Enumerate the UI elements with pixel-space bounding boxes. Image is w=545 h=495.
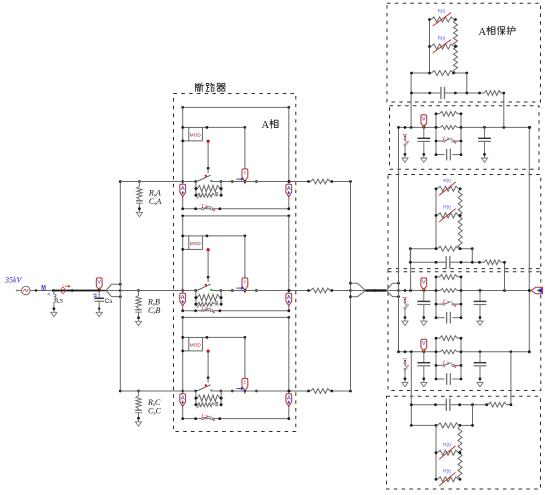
svg-text:CsC: CsC <box>148 407 161 417</box>
svg-text:MOD: MOD <box>190 343 202 348</box>
svg-text:A: A <box>287 186 291 192</box>
svg-text:<: < <box>47 292 50 298</box>
svg-text:V: V <box>422 341 426 347</box>
svg-text:V: V <box>97 280 101 286</box>
svg-text:>: > <box>446 361 449 367</box>
svg-text:>: > <box>205 414 208 420</box>
svg-text:A: A <box>262 120 270 131</box>
svg-text:MOD: MOD <box>190 133 202 138</box>
svg-text:R(t): R(t) <box>438 9 446 14</box>
svg-text:R(t): R(t) <box>438 36 446 41</box>
svg-text:Cs: Cs <box>105 298 113 305</box>
svg-text:A: A <box>181 395 185 401</box>
svg-text:R(t): R(t) <box>443 178 451 183</box>
svg-text:A: A <box>287 295 291 301</box>
svg-text:R(t): R(t) <box>443 205 451 210</box>
svg-text:A: A <box>479 27 487 38</box>
svg-text:R(t): R(t) <box>443 442 451 447</box>
svg-text:V: V <box>422 116 426 122</box>
svg-text:R(t): R(t) <box>443 468 451 473</box>
svg-text:A: A <box>181 186 185 192</box>
svg-text:V: V <box>422 280 426 286</box>
svg-text:>: > <box>446 299 449 305</box>
svg-text:>: > <box>446 136 449 142</box>
svg-text:A: A <box>287 395 291 401</box>
svg-text:35kV: 35kV <box>4 276 23 285</box>
svg-text:>: > <box>205 306 208 312</box>
svg-text:MOD: MOD <box>190 241 202 246</box>
svg-text:Ls: Ls <box>56 298 63 305</box>
svg-text:>: > <box>205 204 208 210</box>
svg-text:A: A <box>181 295 185 301</box>
